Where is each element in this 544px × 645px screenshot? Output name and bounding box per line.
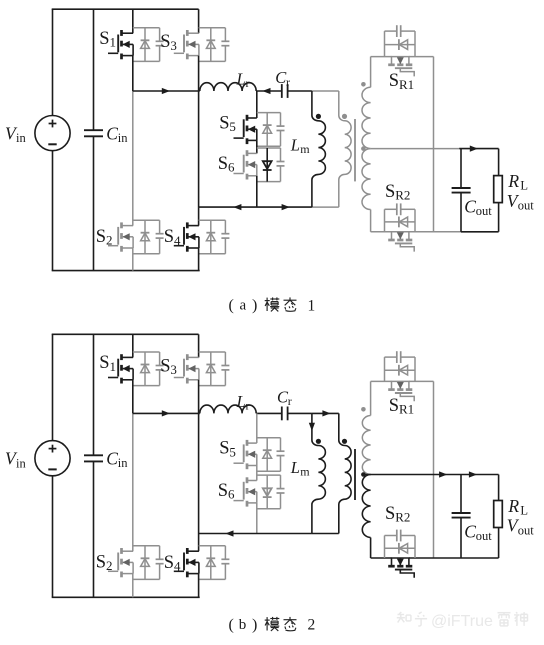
svg-text:R1: R1 <box>399 77 414 92</box>
svg-text:S: S <box>160 356 170 376</box>
svg-text:a: a <box>240 298 247 314</box>
label Cr <box>275 68 290 89</box>
polarity dot primary <box>342 114 347 119</box>
body diode and capacitor of S6 <box>257 475 285 509</box>
svg-text:b: b <box>239 617 247 633</box>
wire <box>371 380 392 382</box>
wire <box>371 557 392 559</box>
label S6 <box>218 481 235 502</box>
body diode and capacitor of S4 <box>199 546 230 580</box>
synchronous rectifier SR2 <box>385 530 416 578</box>
svg-text:3: 3 <box>170 362 177 377</box>
transformer secondary winding upper <box>362 416 370 475</box>
svg-text:S: S <box>219 439 229 459</box>
polarity dot primary <box>342 439 347 444</box>
wire <box>371 56 392 58</box>
label S1 <box>99 353 116 374</box>
transistor S4 <box>174 548 199 577</box>
transformer secondary winding upper <box>362 87 371 148</box>
transistor S3 <box>174 354 199 383</box>
wire node B <box>198 380 200 534</box>
wire <box>409 56 434 58</box>
wire <box>256 91 258 118</box>
label Vout <box>507 191 535 213</box>
wire <box>199 533 312 535</box>
wire <box>498 528 500 559</box>
body diode and capacitor of S3 <box>199 352 230 386</box>
svg-text:3: 3 <box>170 38 177 53</box>
wire <box>461 231 499 233</box>
wire <box>52 476 54 598</box>
transformer secondary winding lower <box>362 149 371 210</box>
svg-text:C: C <box>106 449 118 469</box>
label SR1 <box>389 71 414 92</box>
svg-text:L: L <box>520 504 528 518</box>
label S1 <box>99 29 116 50</box>
current direction arrow <box>470 146 478 152</box>
wire <box>132 91 134 226</box>
caption (a) mode 1 <box>229 297 316 315</box>
label S3 <box>160 356 177 377</box>
svg-text:R: R <box>507 496 519 516</box>
current direction arrow <box>233 204 241 210</box>
label Vin <box>5 124 26 146</box>
svg-text:S: S <box>218 481 228 501</box>
svg-text:C: C <box>464 197 476 217</box>
wire <box>409 557 461 559</box>
svg-text:2: 2 <box>106 558 113 573</box>
label SR1 <box>389 396 414 417</box>
svg-text:S: S <box>96 553 106 573</box>
label SR2 <box>385 182 410 203</box>
svg-text:S: S <box>385 182 395 202</box>
svg-text:S: S <box>218 154 228 174</box>
svg-text:L: L <box>520 179 528 193</box>
wire <box>312 533 339 535</box>
wire centre tap <box>365 474 499 476</box>
label RL <box>507 496 528 518</box>
wire bottom rail <box>52 596 200 598</box>
svg-text:in: in <box>118 456 128 470</box>
wire top rail <box>52 8 199 10</box>
current direction arrow <box>225 530 233 536</box>
resistor RL <box>494 501 503 528</box>
wire <box>256 90 282 92</box>
svg-text:2: 2 <box>308 617 316 634</box>
body diode and capacitor of S5 <box>257 113 285 147</box>
transistor S6 <box>234 477 257 506</box>
inductor Lr <box>200 405 256 413</box>
label Cin <box>106 449 128 471</box>
svg-text:r: r <box>246 76 250 90</box>
polarity dot Lm <box>316 439 321 444</box>
current direction arrow <box>262 88 270 94</box>
svg-text:out: out <box>476 529 493 543</box>
inductor Lm <box>312 413 326 533</box>
label Cout <box>464 197 492 219</box>
svg-text:(: ( <box>229 297 234 314</box>
wire <box>132 248 134 271</box>
body diode and capacitor of S3 <box>199 28 230 62</box>
svg-text:2: 2 <box>106 233 113 248</box>
wire <box>312 412 339 414</box>
capacitor Cr <box>282 407 288 421</box>
svg-text:6: 6 <box>228 159 235 174</box>
wire node A <box>132 56 134 91</box>
wire <box>133 90 200 92</box>
watermark zhihu @iFTrue <box>397 612 528 630</box>
wire <box>370 538 372 559</box>
svg-text:L: L <box>290 136 300 155</box>
current direction arrow <box>439 471 447 477</box>
wire <box>198 9 200 33</box>
svg-text:4: 4 <box>174 233 181 248</box>
wire <box>133 412 200 414</box>
wire <box>370 210 372 232</box>
transformer primary winding <box>339 413 351 533</box>
wire <box>132 574 134 598</box>
svg-text:): ) <box>252 617 257 634</box>
wire <box>498 203 500 232</box>
wire <box>198 534 200 552</box>
wire <box>52 9 54 115</box>
transformer core <box>354 449 356 500</box>
current direction arrow <box>282 204 290 210</box>
svg-text:1: 1 <box>110 359 117 374</box>
wire <box>312 90 339 92</box>
body diode and capacitor of S5 <box>257 438 285 472</box>
body diode and capacitor of S1 <box>133 352 164 386</box>
body diode and capacitor of S1 <box>133 28 164 62</box>
svg-text:S: S <box>164 227 174 247</box>
wire <box>256 412 282 414</box>
label Vin <box>5 449 26 471</box>
label S2 <box>96 553 113 574</box>
current direction arrow <box>162 410 170 416</box>
inductor Lm <box>312 91 326 207</box>
wire node A <box>132 380 134 414</box>
wire <box>370 57 372 88</box>
transformer secondary winding lower <box>362 475 370 538</box>
svg-text:out: out <box>518 523 535 537</box>
label Cin <box>106 124 128 146</box>
svg-text:L: L <box>236 69 246 88</box>
svg-text:r: r <box>286 75 290 89</box>
wire <box>256 503 258 534</box>
svg-text:S: S <box>389 396 399 416</box>
svg-text:L: L <box>290 458 300 477</box>
label Lr <box>236 69 250 90</box>
svg-text:in: in <box>118 131 128 145</box>
svg-text:in: in <box>16 131 26 145</box>
wire centre tap <box>371 148 460 150</box>
current direction arrow <box>469 471 477 477</box>
label Lm <box>290 136 311 157</box>
wire <box>256 413 258 443</box>
wire <box>461 557 499 559</box>
wire <box>199 206 312 208</box>
svg-text:L: L <box>236 392 246 411</box>
label S3 <box>160 32 177 53</box>
transformer primary winding <box>339 91 351 207</box>
synchronous rectifier SR1 <box>385 351 416 401</box>
wire <box>288 412 312 414</box>
wire <box>312 206 339 208</box>
wire <box>459 148 498 150</box>
body diode and capacitor of S4 <box>199 220 230 254</box>
wire <box>52 151 54 271</box>
label S2 <box>96 227 113 248</box>
wire <box>198 334 200 357</box>
resistor RL <box>494 176 503 203</box>
svg-text:S: S <box>99 353 109 373</box>
capacitor Cin <box>84 9 103 270</box>
synchronous rectifier SR1 <box>385 25 416 76</box>
label S5 <box>219 114 236 135</box>
transistor S2 <box>108 222 133 251</box>
wire top rail <box>52 333 199 335</box>
wire <box>132 413 134 551</box>
svg-text:1: 1 <box>308 298 316 315</box>
wire <box>198 248 200 271</box>
svg-text:S: S <box>160 32 170 52</box>
synchronous rectifier SR2 <box>385 203 416 251</box>
transistor S6 <box>234 150 257 179</box>
svg-text:m: m <box>300 465 310 479</box>
svg-text:m: m <box>300 142 310 156</box>
svg-text:S: S <box>219 114 229 134</box>
capacitor Cout <box>452 475 471 559</box>
svg-text:r: r <box>288 394 292 408</box>
transistor S1 <box>108 354 133 383</box>
transistor S3 <box>174 30 199 59</box>
svg-text:S: S <box>99 29 109 49</box>
inductor Lr <box>200 83 256 91</box>
svg-text:R2: R2 <box>395 510 410 525</box>
capacitor Cr <box>282 84 288 98</box>
svg-text:S: S <box>164 553 174 573</box>
capacitor Cout <box>452 149 471 232</box>
wire <box>370 381 372 415</box>
label Lr <box>236 392 250 413</box>
svg-text:R: R <box>507 171 519 191</box>
polarity dot Lm <box>316 114 321 119</box>
label S4 <box>164 553 181 574</box>
wire <box>52 334 54 440</box>
transistor S4 <box>174 222 199 251</box>
svg-text:S: S <box>96 227 106 247</box>
body diode and capacitor of S2 <box>133 546 164 580</box>
label S6 <box>218 154 235 175</box>
label Cout <box>464 522 492 544</box>
label Cr <box>277 388 292 409</box>
wire <box>198 574 200 598</box>
svg-text:(: ( <box>229 617 234 634</box>
wire node B <box>198 56 200 208</box>
capacitor Cin <box>84 334 103 597</box>
polarity dot secondary centre tap <box>361 472 366 477</box>
wire <box>288 90 312 92</box>
svg-text:4: 4 <box>174 558 181 573</box>
polarity dot secondary centre tap <box>361 146 366 151</box>
svg-text:out: out <box>518 198 535 212</box>
voltage source Vin <box>35 441 70 476</box>
svg-text:C: C <box>464 522 476 542</box>
svg-text:S: S <box>389 71 399 91</box>
svg-text:r: r <box>246 398 250 412</box>
wire <box>256 176 258 207</box>
svg-text:S: S <box>385 504 395 524</box>
transistor S5 <box>234 115 257 144</box>
voltage source Vin <box>35 116 70 151</box>
body diode and capacitor of S6 <box>257 148 285 182</box>
wire <box>256 140 258 153</box>
wire SR bus <box>433 381 435 558</box>
label S5 <box>219 439 236 460</box>
current direction arrow <box>309 423 315 431</box>
wire SR bus <box>433 57 435 232</box>
current direction arrow <box>322 410 330 416</box>
svg-text:6: 6 <box>228 487 235 502</box>
wire bottom rail <box>52 270 200 272</box>
wire <box>498 475 500 501</box>
svg-text:in: in <box>16 456 26 470</box>
wire <box>132 9 134 33</box>
svg-text:C: C <box>106 124 118 144</box>
svg-text:5: 5 <box>229 119 236 134</box>
polarity dot secondary top <box>361 407 366 412</box>
caption (b) mode 2 <box>229 617 316 634</box>
label S4 <box>164 227 181 248</box>
svg-text:out: out <box>476 204 493 218</box>
transistor S1 <box>108 30 133 59</box>
wire <box>198 207 200 226</box>
svg-text:R1: R1 <box>399 402 414 417</box>
label RL <box>507 171 528 193</box>
wire <box>132 334 134 357</box>
svg-text:1: 1 <box>110 35 117 50</box>
svg-text:5: 5 <box>229 444 236 459</box>
label SR2 <box>385 504 410 525</box>
wire <box>256 466 258 481</box>
wire <box>371 231 392 233</box>
wire <box>409 380 434 382</box>
label Lm <box>290 458 311 479</box>
transistor S5 <box>234 440 257 469</box>
label Vout <box>507 516 535 538</box>
body diode and capacitor of S2 <box>133 220 164 254</box>
svg-text:): ) <box>252 297 257 314</box>
current direction arrow <box>162 88 170 94</box>
transformer core <box>354 119 356 181</box>
svg-text:R2: R2 <box>395 188 410 203</box>
wire <box>409 231 461 233</box>
wire <box>498 149 500 176</box>
transistor S2 <box>108 548 133 577</box>
svg-text:@iFTrue: @iFTrue <box>431 613 493 630</box>
polarity dot secondary top <box>361 82 366 87</box>
